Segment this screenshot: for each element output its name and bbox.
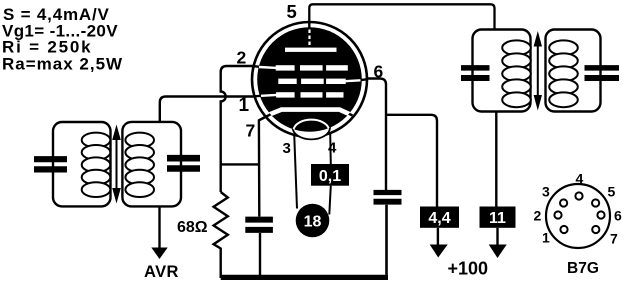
svg-text:1: 1 <box>542 230 550 246</box>
heater circle of U1 <box>293 116 330 140</box>
grid row 1 of U1 <box>276 65 348 70</box>
B7G socket pin numbers <box>534 171 623 247</box>
B7G socket outline <box>546 184 610 248</box>
capacitor C3 cathode bypass <box>245 220 273 230</box>
svg-text:+100: +100 <box>448 259 489 279</box>
wire screen grid: tube pin 6 right, corner, down to decoupling cap C4 <box>365 79 387 191</box>
capacitor C4 screen decoupling <box>374 193 402 202</box>
transformer T1 secondary loop <box>122 122 181 206</box>
svg-text:1: 1 <box>239 95 250 116</box>
transformer T2 secondary loop <box>546 30 601 112</box>
grid row 3 lead <box>261 94 277 97</box>
coil L4 (T2 secondary winding) <box>549 40 578 107</box>
wire anode: tube pin 5 to right IF transformer primary top <box>309 4 494 29</box>
T1 tuning double arrow <box>112 125 121 204</box>
svg-text:7: 7 <box>610 231 618 247</box>
capacitor C1 in T1 primary tank <box>34 159 67 169</box>
arrow to AVR line <box>151 248 167 260</box>
anode lead dashed <box>308 30 310 48</box>
B7G socket pin holes <box>554 192 604 233</box>
value marker 0,1 (heater current box) <box>311 164 349 186</box>
T2 tuning double arrow <box>534 31 542 111</box>
coil L2 (T1 secondary winding) <box>125 133 154 197</box>
svg-text:7: 7 <box>246 121 256 141</box>
grid row 1 lead <box>259 66 277 69</box>
svg-text:3: 3 <box>283 140 291 157</box>
svg-text:11: 11 <box>489 210 506 227</box>
transformer T2 primary loop <box>473 30 531 112</box>
grid row 2 lead <box>345 79 361 82</box>
wire grid 2: tube pin 2 left, corner, hop over pin-1 wire, down to resistor R1 <box>221 66 255 192</box>
coil L3 (T2 primary winding) <box>502 40 531 107</box>
svg-text:6: 6 <box>374 62 384 82</box>
grid row 3 of U1 <box>276 92 343 97</box>
svg-text:6: 6 <box>614 208 622 224</box>
wire: left IF transformer secondary bottom to AVR <box>158 206 160 248</box>
svg-text:68Ω: 68Ω <box>177 219 208 236</box>
arrow to +100 under 4,4 <box>437 228 439 246</box>
tube U1 inner disc <box>257 27 362 132</box>
pin lead stubs crossing envelope gap <box>253 21 368 120</box>
wire heater pin 4 down through 0,1 marker <box>329 134 331 215</box>
svg-text:0,1: 0,1 <box>319 168 341 185</box>
svg-text:4,4: 4,4 <box>428 210 450 227</box>
svg-text:B7G: B7G <box>567 260 599 277</box>
svg-text:2: 2 <box>237 48 247 68</box>
svg-text:2: 2 <box>534 208 542 224</box>
tube U1 envelope <box>252 22 367 137</box>
grid row 2 of U1 <box>278 79 345 84</box>
svg-text:5: 5 <box>287 1 297 22</box>
ground bus <box>221 275 388 280</box>
value marker 4,4 (screen current box) <box>420 207 459 228</box>
arrow to +100 under 11 <box>496 228 498 246</box>
coil L1 (T1 primary winding) <box>82 133 111 197</box>
resistor R1 68 ohm <box>214 192 228 278</box>
wire cathode: pin 7 diagonal lead and vertical down to bypass cap C3 <box>259 112 276 217</box>
wire: cathode-to-grid2 junction horizontal <box>221 163 260 165</box>
anode bar of U1 <box>285 48 337 52</box>
capacitor C6 in T2 secondary tank <box>585 68 620 78</box>
svg-text:3: 3 <box>542 184 550 200</box>
value marker 18 (circle) <box>296 204 330 238</box>
svg-text:Ra=max 2,5W: Ra=max 2,5W <box>2 54 123 73</box>
transformer T1 primary loop <box>53 122 111 206</box>
wire: cathode right stub at tube edge <box>343 111 353 116</box>
wire: C3 bottom plate to ground bus <box>259 233 261 278</box>
svg-text:AVR: AVR <box>144 263 179 281</box>
capacitor C2 in T1 secondary tank <box>167 158 200 168</box>
wire: right IF transformer primary bottom to 11 mA marker <box>495 112 497 207</box>
svg-text:5: 5 <box>608 184 616 200</box>
svg-text:4: 4 <box>328 140 337 157</box>
wire grid 1: tube pin 1 to left IF transformer secondary top <box>160 97 257 122</box>
cathode of U1 <box>269 110 351 115</box>
tube data text block (S, Vg1, Ri, Ra values) <box>2 5 123 73</box>
wire: C4 bottom plate to ground bus <box>385 205 388 278</box>
svg-text:18: 18 <box>304 214 322 231</box>
wire: screen node branch to 4,4 mA marker <box>386 115 437 207</box>
wire heater pin 3 down to 18 marker <box>294 134 297 209</box>
capacitor C5 in T2 primary tank <box>461 68 490 78</box>
svg-text:4: 4 <box>576 171 584 187</box>
value marker 11 (anode current box) <box>480 207 516 228</box>
